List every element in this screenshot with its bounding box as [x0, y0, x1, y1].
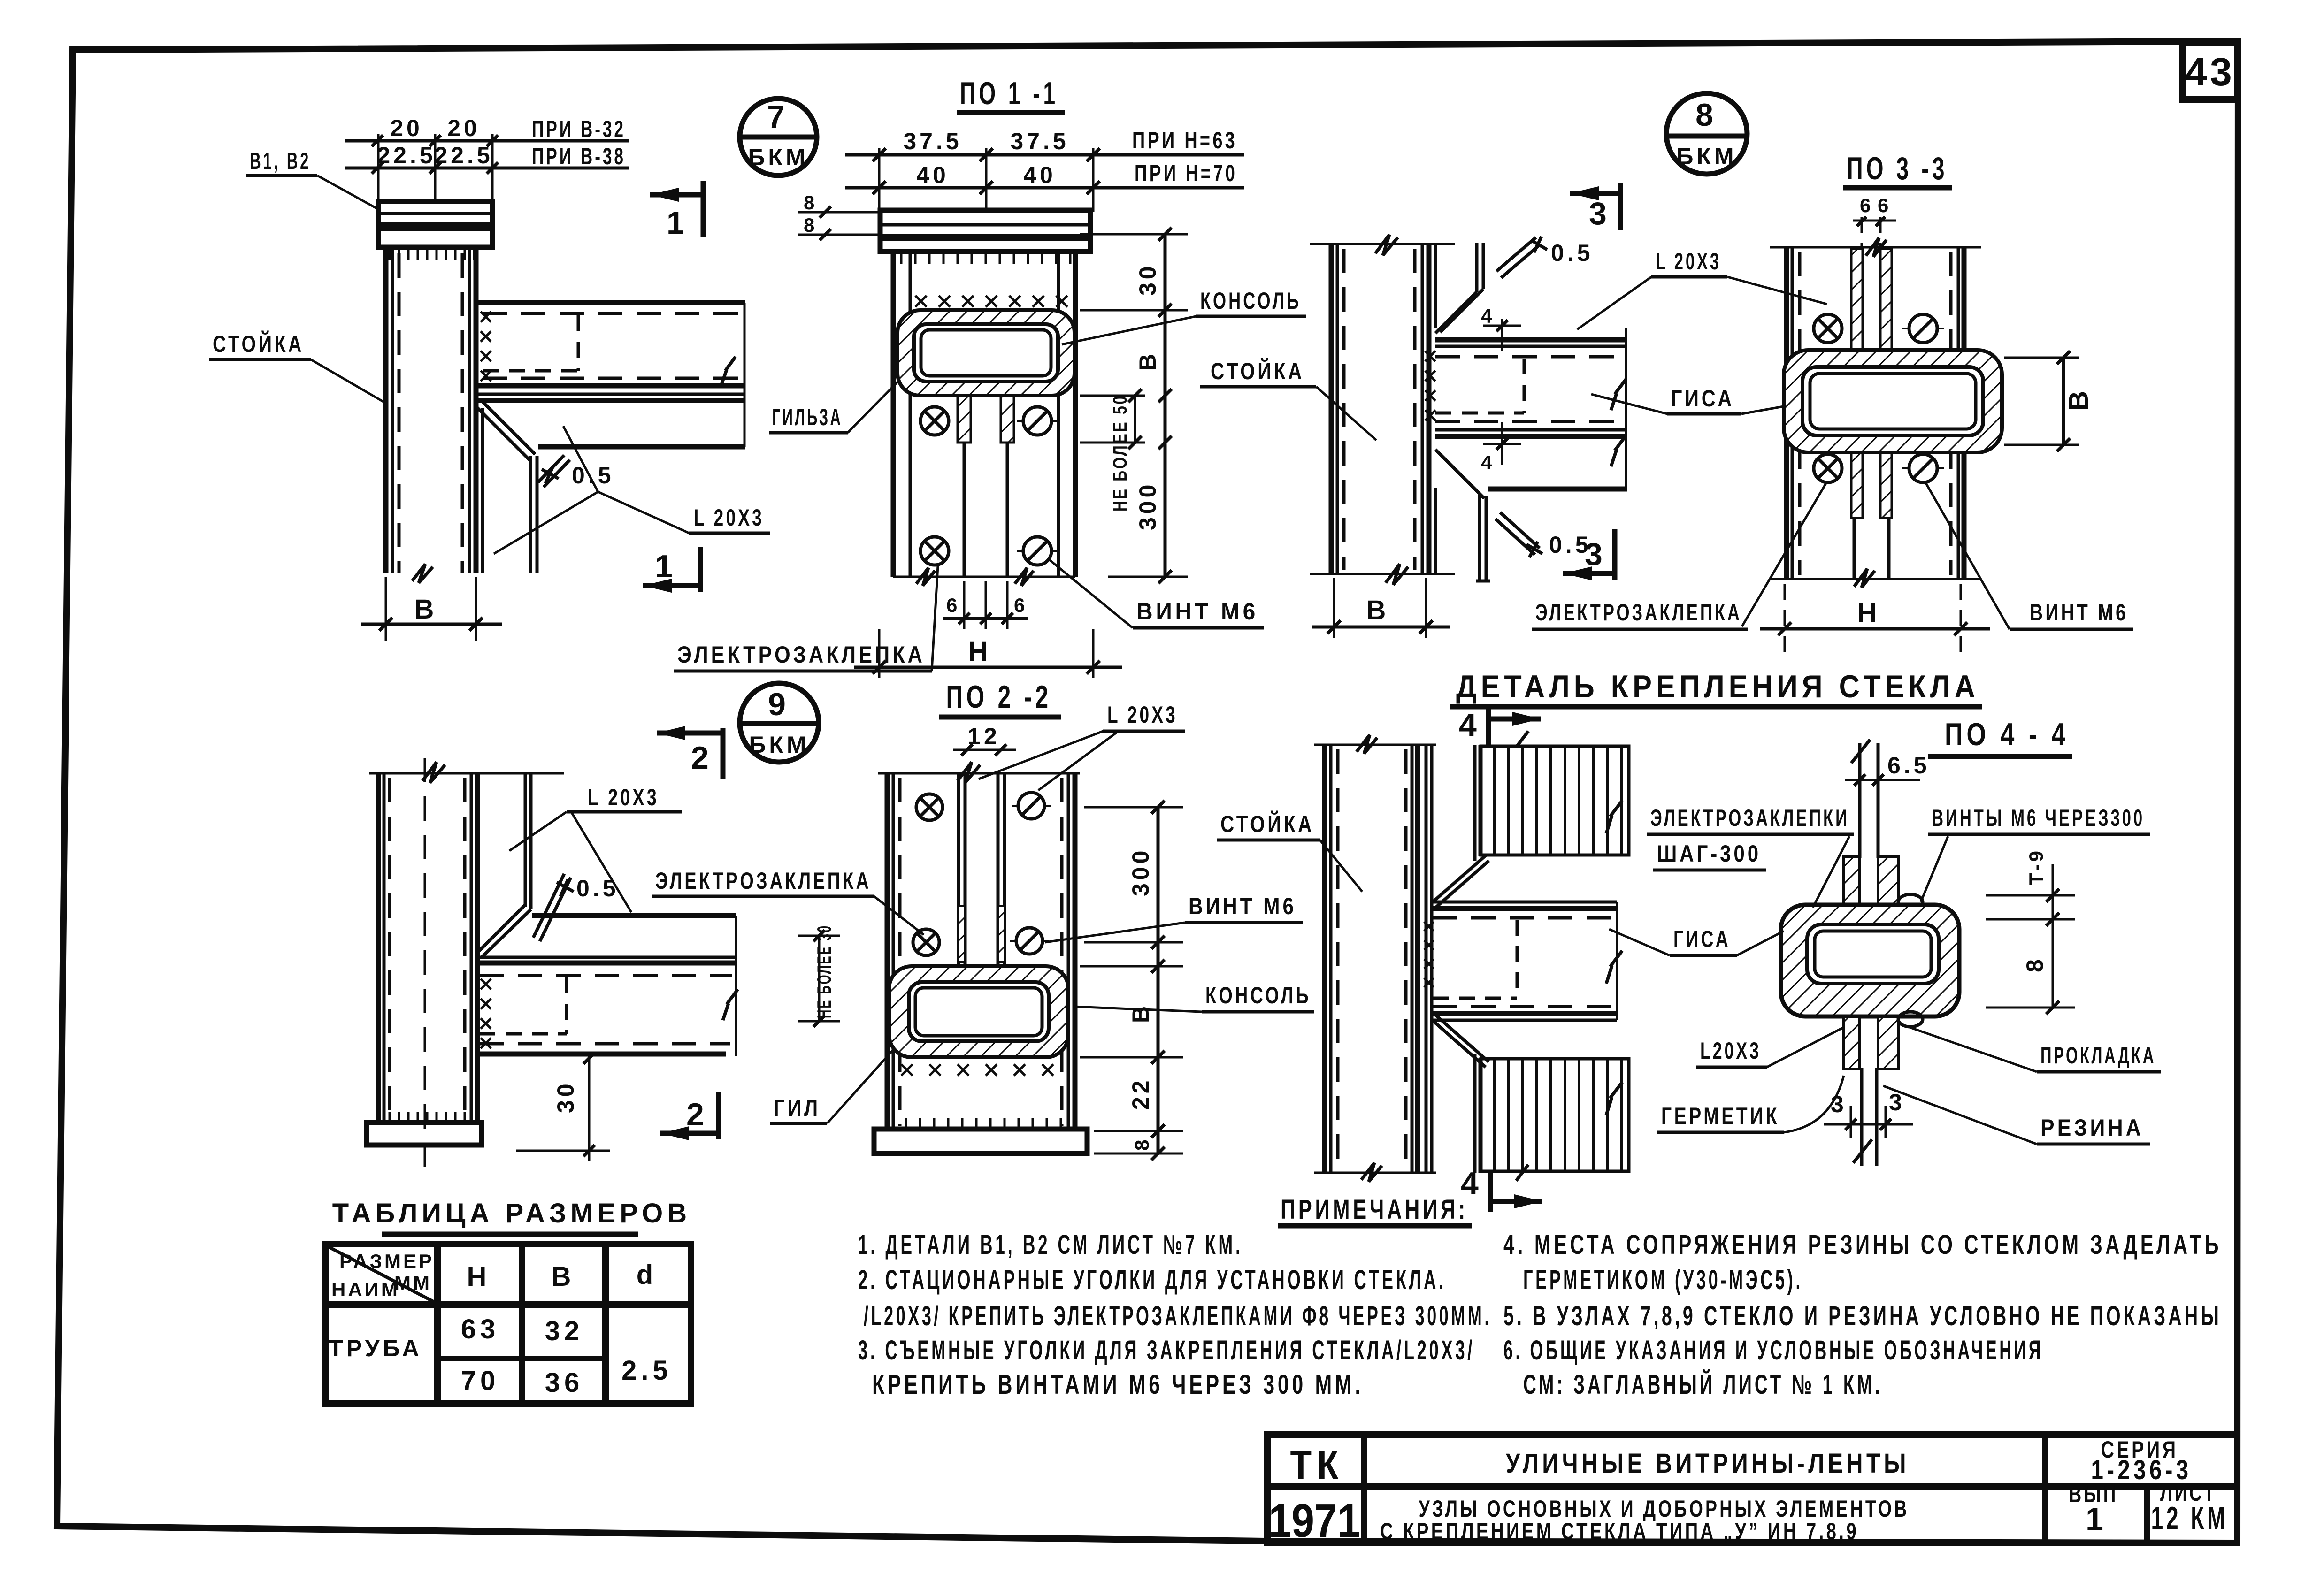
dim line 20/20/при в-32 — [345, 139, 629, 143]
svg-text:32: 32 — [545, 1316, 584, 1346]
column walls — [885, 773, 890, 1131]
svg-text:8: 8 — [1695, 97, 1718, 133]
cap plate — [880, 210, 1090, 252]
column top cut line — [1310, 243, 1455, 245]
right dim chain — [1084, 806, 1183, 809]
svg-text:труба: труба — [329, 1335, 422, 1361]
dim 30 bottom — [588, 1056, 591, 1161]
стойка column body — [383, 247, 389, 573]
table col divider 2 — [519, 1244, 525, 1404]
svg-text:4: 4 — [1459, 707, 1481, 743]
title block outer — [1267, 1435, 2237, 1543]
rubber profile outer — [1781, 905, 1959, 1016]
table outer — [326, 1244, 691, 1404]
weld x marks — [1424, 922, 1434, 987]
svg-text:В1, В2: В1, В2 — [250, 148, 311, 174]
svg-text:при в-32: при в-32 — [532, 116, 626, 142]
svg-text:43: 43 — [2185, 50, 2234, 94]
svg-text:40: 40 — [916, 162, 949, 188]
svg-text:0.5: 0.5 — [1551, 240, 1594, 266]
dim line 22.5/22.5/при в-38 — [345, 167, 629, 170]
svg-text:Н: Н — [968, 636, 992, 667]
central channel verticals — [957, 773, 960, 965]
top connector hatched blocks — [1844, 857, 1860, 909]
консоль beam — [1435, 337, 1627, 343]
svg-text:2: 2 — [691, 740, 713, 776]
center angle bars upper — [1851, 249, 1863, 350]
svg-text:36: 36 — [545, 1367, 584, 1398]
svg-text:2. Стационарные уголки для: 2. Стационарные уголки для установки сте… — [858, 1265, 1446, 1295]
svg-text:6: 6 — [1860, 194, 1873, 216]
svg-text:1. Детали В1, В2 см лист №7 к: 1. Детали В1, В2 см лист №7 км. — [858, 1229, 1243, 1260]
section mark 2 (top) — [657, 726, 685, 740]
svg-text:30: 30 — [1135, 263, 1161, 296]
консоль beam top chamfer — [1431, 855, 1486, 903]
beam bottom chamfer — [1431, 1019, 1486, 1067]
weld x marks on column face — [481, 312, 491, 381]
node marker circle 7/БКМ — [740, 99, 817, 176]
column cap B1/B2 — [378, 201, 492, 247]
base plate — [874, 1129, 1087, 1153]
title underline — [382, 1232, 638, 1237]
right dim chain — [1986, 894, 2075, 897]
svg-text:8: 8 — [2022, 956, 2048, 972]
svg-text:40: 40 — [1023, 162, 1056, 188]
svg-text:20: 20 — [447, 115, 480, 141]
svg-text:Уличные витрины-ленты: Уличные витрины-ленты — [1506, 1448, 1910, 1479]
svg-text:Прокладка: Прокладка — [2040, 1042, 2156, 1069]
svg-text:63: 63 — [461, 1314, 500, 1344]
консоль beam — [532, 913, 736, 918]
svg-text:20: 20 — [390, 115, 423, 141]
svg-text:1: 1 — [2086, 1501, 2108, 1537]
svg-text:3: 3 — [1889, 1089, 1905, 1115]
bottom small dims 6/6 — [963, 581, 966, 629]
bottom dim в — [385, 577, 387, 641]
svg-text:Винт М6: Винт М6 — [2030, 599, 2128, 626]
small weld dim 4 top — [1501, 319, 1503, 351]
base hatch ticks — [906, 1118, 1061, 1129]
svg-text:ТК: ТК — [1290, 1442, 1344, 1488]
base plate — [367, 1123, 482, 1145]
svg-text:7: 7 — [767, 99, 790, 135]
small weld dim 4 bottom — [1501, 422, 1503, 465]
section mark 3 (top) — [1570, 186, 1599, 200]
гильза tube inside — [1807, 924, 1939, 984]
svg-text:L 20х3: L 20х3 — [1107, 702, 1178, 728]
svg-text:по 3 -3: по 3 -3 — [1847, 151, 1948, 186]
svg-text:37.5: 37.5 — [903, 128, 962, 154]
beam cut end — [1625, 328, 1627, 489]
weld mark 0.5 top — [1496, 237, 1541, 278]
title block col divider 1 — [1361, 1435, 1367, 1543]
svg-text:8: 8 — [1131, 1138, 1153, 1151]
angle legs to bottom — [963, 443, 966, 577]
svg-text:9: 9 — [768, 687, 790, 722]
weld mark 0.5 bottom — [1496, 512, 1540, 555]
svg-text:2: 2 — [686, 1097, 709, 1132]
svg-text:Гиса: Гиса — [1673, 926, 1731, 952]
стойка column — [1314, 744, 1436, 746]
svg-text:3. Съемные уголки для закреп: 3. Съемные уголки для закрепления стекла… — [858, 1335, 1475, 1366]
svg-text:22.5: 22.5 — [377, 142, 436, 168]
svg-text:6: 6 — [946, 594, 959, 616]
base hatch ticks — [390, 1112, 465, 1123]
table header divider — [326, 1301, 691, 1308]
гильза tube ring — [897, 310, 1074, 396]
bottom cut — [1770, 578, 1981, 580]
bottom connector hatched blocks — [1844, 1016, 1860, 1069]
top glass strip — [1858, 743, 1862, 858]
svg-text:не более 50: не более 50 — [1109, 394, 1131, 512]
svg-text:Н: Н — [1857, 598, 1881, 628]
weld mark 0.5 — [538, 455, 570, 487]
title block row divider — [1267, 1483, 2237, 1490]
beam cut end — [744, 303, 746, 447]
weld mark 0.5 — [533, 874, 571, 941]
svg-text:в: в — [1135, 351, 1161, 371]
svg-text:Наим: Наим — [331, 1278, 400, 1300]
svg-text:Консоль: Консоль — [1205, 982, 1311, 1008]
svg-text:мм: мм — [394, 1272, 432, 1294]
svg-text:1: 1 — [667, 205, 689, 241]
svg-text:по 2 -2: по 2 -2 — [946, 679, 1052, 715]
node marker circle 9/БКМ — [740, 683, 819, 762]
svg-text:6: 6 — [1014, 594, 1027, 616]
svg-text:в: в — [2063, 387, 2094, 411]
svg-text:с креплением стекла типа „У: с креплением стекла типа „У” ин 7,8,9 — [1380, 1518, 1859, 1544]
svg-text:Стойка: Стойка — [1211, 358, 1304, 384]
title block col divider 2 — [2042, 1435, 2048, 1543]
section mark 4 (bottom) — [1488, 1167, 1493, 1212]
svg-text:при Н=70: при Н=70 — [1135, 160, 1237, 186]
section mark 3 (bottom) — [1563, 566, 1592, 580]
svg-text:4: 4 — [1481, 305, 1494, 327]
central angle hatched bars — [959, 906, 965, 962]
svg-text:при в-38: при в-38 — [532, 143, 626, 169]
svg-text:12 КМ: 12 КМ — [2151, 1500, 2229, 1536]
rivet screw circles — [920, 407, 949, 435]
svg-text:L 20х3: L 20х3 — [1656, 248, 1721, 275]
dim extension verticals — [878, 148, 881, 212]
top dim 37.5/37.5 — [845, 153, 1244, 157]
svg-text:БКМ: БКМ — [749, 732, 809, 758]
svg-text:3: 3 — [1585, 536, 1607, 572]
svg-text:БКМ: БКМ — [1676, 143, 1737, 169]
upper removable angle — [524, 773, 527, 907]
гильза tube ring — [1784, 350, 2002, 452]
svg-text:d: d — [637, 1260, 657, 1290]
top dim 40/40 — [845, 186, 1244, 190]
svg-text:крепить винтами М6 через: крепить винтами М6 через 300 мм. — [872, 1369, 1364, 1400]
svg-text:Герметик: Герметик — [1661, 1103, 1779, 1129]
svg-text:Примечания:: Примечания: — [1281, 1194, 1468, 1225]
гильза tube ring — [889, 966, 1068, 1057]
svg-text:Гил: Гил — [774, 1095, 821, 1121]
section mark 1 (top) — [650, 188, 679, 202]
center angle bars lower — [1851, 452, 1863, 518]
header diagonal — [328, 1246, 436, 1303]
svg-text:8: 8 — [804, 191, 817, 214]
beam cut end — [735, 916, 737, 1056]
weld x row below tube — [901, 1064, 1053, 1076]
title block col divider 3 — [2144, 1487, 2150, 1543]
стойка column — [376, 773, 381, 1123]
column bottom cut — [1310, 573, 1455, 575]
svg-text:в: в — [1366, 595, 1390, 626]
svg-text:30: 30 — [552, 1080, 579, 1113]
sheet number box — [2183, 43, 2237, 99]
svg-text:L 20х3: L 20х3 — [588, 784, 659, 810]
svg-text:Винт М6: Винт М6 — [1189, 893, 1296, 919]
svg-text:4. Места сопряжения резины: 4. Места сопряжения резины со стеклом за… — [1503, 1229, 2222, 1260]
svg-text:Консоль: Консоль — [1200, 288, 1301, 314]
column walls — [1784, 247, 1789, 579]
svg-text:Электрозаклепка: Электрозаклепка — [677, 641, 925, 668]
svg-text:Гильза: Гильза — [772, 404, 843, 430]
svg-text:8: 8 — [804, 214, 817, 236]
beam lines — [1431, 901, 1617, 904]
svg-text:/L20х3/ крепить электрозаклепк: /L20х3/ крепить электрозаклепками ф8 чер… — [864, 1301, 1492, 1331]
svg-text:5. В узлах 7,8,9 стекло и: 5. В узлах 7,8,9 стекло и резина условно… — [1503, 1301, 2222, 1331]
svg-text:6: 6 — [1878, 194, 1891, 216]
svg-text:70: 70 — [461, 1366, 500, 1396]
svg-text:300: 300 — [1135, 481, 1161, 530]
weld x marks — [1425, 351, 1435, 420]
beam cut end — [1616, 902, 1618, 1020]
svg-text:6. Общие указания и условны: 6. Общие указания и условные обозначения — [1503, 1335, 2043, 1366]
glass top (ribbed) — [1481, 746, 1629, 855]
table mid row divider — [437, 1356, 606, 1361]
svg-text:Стойка: Стойка — [213, 330, 304, 357]
stationary angle verticals — [1425, 745, 1428, 1173]
svg-text:22: 22 — [1127, 1077, 1154, 1110]
svg-text:герметиком (У30-МЭС5).: герметиком (У30-МЭС5). — [1523, 1265, 1803, 1295]
svg-text:Гиса: Гиса — [1671, 385, 1734, 412]
rivet screw circles — [916, 794, 943, 820]
bottom glass strip — [1860, 1068, 1864, 1166]
svg-text:в: в — [414, 594, 438, 625]
lower removable angle — [1435, 450, 1480, 494]
notes title underline — [1278, 1223, 1472, 1229]
removable angle verticals — [481, 408, 484, 573]
svg-text:при Н=63: при Н=63 — [1132, 127, 1237, 153]
svg-text:шаг-300: шаг-300 — [1657, 840, 1761, 867]
weld x marks — [481, 979, 491, 1048]
svg-text:Электрозаклепка: Электрозаклепка — [655, 868, 871, 894]
weld tick row under cap — [390, 249, 474, 260]
svg-text:не более 30: не более 30 — [813, 924, 835, 1018]
не более 30 gap dim — [798, 935, 840, 937]
прокладка bump top — [1898, 894, 1923, 909]
svg-text:в: в — [1127, 1003, 1154, 1023]
upper removable angle — [1475, 243, 1479, 292]
svg-text:6.5: 6.5 — [1887, 752, 1930, 779]
Н dim bottom — [878, 629, 881, 678]
extension verticals for top dims — [377, 134, 380, 203]
svg-text:300: 300 — [1127, 848, 1154, 896]
прокладка bump bottom — [1898, 1012, 1923, 1027]
bottom dim Н — [1784, 584, 1786, 652]
svg-text:Винт М6: Винт М6 — [1136, 598, 1258, 625]
svg-text:Деталь крепления стекла: Деталь крепления стекла — [1456, 669, 1979, 704]
column top cut — [369, 772, 564, 775]
break slashes — [1516, 731, 1622, 1181]
svg-text:37.5: 37.5 — [1010, 128, 1069, 154]
svg-text:4: 4 — [1481, 451, 1494, 473]
svg-text:см: заглавный лист № 1 км.: см: заглавный лист № 1 км. — [1523, 1369, 1883, 1400]
стойка column — [1329, 244, 1334, 574]
table col divider 1 — [434, 1244, 441, 1404]
svg-text:Электрозаклепка: Электрозаклепка — [1535, 599, 1742, 626]
svg-text:1: 1 — [655, 549, 677, 584]
svg-text:Электрозаклепки: Электрозаклепки — [1650, 805, 1849, 831]
svg-text:Н: Н — [467, 1261, 491, 1292]
svg-text:Таблица размеров: Таблица размеров — [332, 1198, 691, 1229]
svg-text:по 4 - 4: по 4 - 4 — [1945, 717, 2069, 752]
svg-text:Размер: Размер — [339, 1250, 434, 1272]
rivet screw circles — [1814, 314, 1842, 343]
svg-text:БКМ: БКМ — [748, 144, 808, 170]
column top cut — [878, 772, 1080, 775]
left small dims 8/8 — [798, 211, 882, 214]
svg-text:Резина: Резина — [2040, 1115, 2144, 1141]
section mark 4 (top) — [1486, 709, 1491, 755]
section mark 2 (bottom) — [660, 1126, 689, 1140]
weld x row above tube — [915, 296, 1067, 307]
right side dim chain — [1080, 233, 1188, 236]
svg-text:3: 3 — [1831, 1091, 1847, 1117]
column cut bottom — [893, 576, 1075, 578]
column walls — [891, 252, 896, 577]
removable angle diagonal — [482, 401, 535, 454]
weld ticks under cap — [901, 253, 1070, 264]
angle bars below tube — [958, 396, 971, 443]
column bottom break mark — [412, 564, 433, 583]
top cut — [1770, 246, 1981, 249]
svg-text:L 20х3: L 20х3 — [694, 504, 764, 531]
bottom dim в — [1333, 578, 1335, 638]
section mark 1 (bottom) — [643, 579, 672, 593]
svg-text:по 1 -1: по 1 -1 — [960, 76, 1058, 111]
svg-text:3: 3 — [1589, 196, 1611, 231]
table col divider 3 — [602, 1244, 609, 1404]
right dim в — [2004, 357, 2079, 359]
glass bottom (ribbed) — [1481, 1059, 1629, 1171]
svg-text:L20х3: L20х3 — [1700, 1038, 1761, 1064]
svg-text:1971: 1971 — [1269, 1495, 1360, 1547]
svg-text:2.5: 2.5 — [621, 1355, 672, 1386]
svg-text:В: В — [552, 1261, 575, 1292]
svg-text:Стойка: Стойка — [1220, 810, 1314, 837]
node marker circle 8/БКМ — [1666, 93, 1747, 174]
svg-text:Винты М6 через300: Винты М6 через300 — [1932, 805, 2145, 831]
консоль beam — [476, 300, 745, 305]
svg-text:т-9: т-9 — [2025, 848, 2047, 885]
svg-text:22.5: 22.5 — [434, 142, 493, 168]
